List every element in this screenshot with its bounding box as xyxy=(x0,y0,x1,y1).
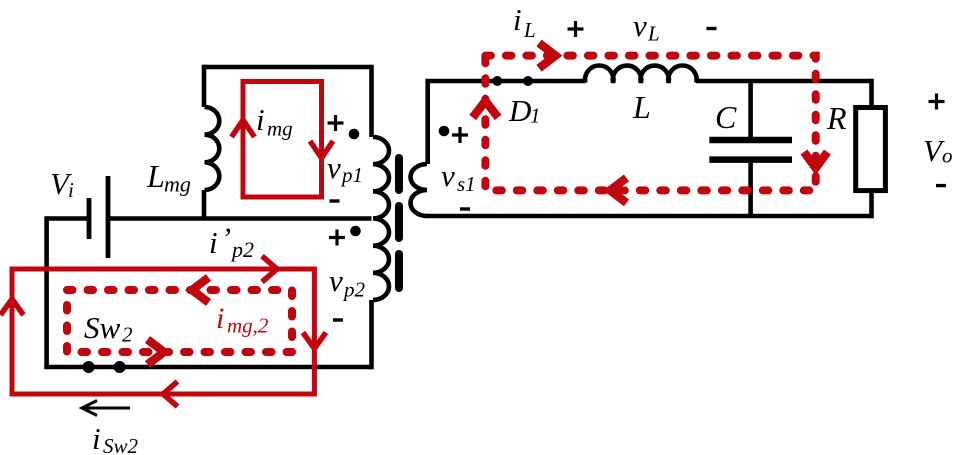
svg-text:o: o xyxy=(942,144,953,168)
current loop img (solid red rectangle) xyxy=(243,82,322,198)
svg-text:mg: mg xyxy=(164,172,191,197)
svg-text:v: v xyxy=(327,150,341,185)
svg-text:mg,2: mg,2 xyxy=(227,314,269,338)
wire resistor bottom lead xyxy=(869,191,874,219)
arrow up on img loop left side xyxy=(232,120,255,137)
wire vs1 top lead xyxy=(425,81,430,164)
arrow right on outer loop top side xyxy=(262,256,277,282)
label ip2 prime xyxy=(209,222,254,262)
arrow right on img2 loop bottom side xyxy=(148,340,165,365)
label Vo xyxy=(923,133,953,168)
arrow down on img loop right side xyxy=(310,141,333,158)
polarity dot vp1 xyxy=(349,129,360,140)
minus sign vs1 xyxy=(460,207,470,210)
transformer core xyxy=(395,158,403,288)
label vL xyxy=(633,8,660,46)
svg-text:p2: p2 xyxy=(230,237,254,262)
wire capacitor top lead xyxy=(748,81,753,137)
label vp2 xyxy=(329,263,366,302)
svg-text:D: D xyxy=(508,93,531,128)
label vs1 xyxy=(441,158,476,196)
svg-text:p1: p1 xyxy=(340,163,363,187)
inductor L xyxy=(585,66,697,83)
wire secondary bottom horizontal xyxy=(425,214,871,219)
svg-text:v: v xyxy=(633,8,647,43)
svg-text:L: L xyxy=(523,18,536,42)
svg-text:v: v xyxy=(329,263,343,298)
wire vp1 top lead xyxy=(369,65,374,137)
inductor Lmg xyxy=(205,107,220,190)
wire capacitor bottom lead xyxy=(748,163,753,216)
label img2 (red) xyxy=(216,302,269,338)
current loop iSw2 (outer solid red rectangle) xyxy=(12,269,314,394)
svg-text:2: 2 xyxy=(122,323,133,347)
wire main horizontal from Vi to transformer xyxy=(47,216,372,221)
label C xyxy=(715,99,737,135)
plus sign vp2 xyxy=(329,230,345,246)
transformer primary winding vp2 xyxy=(373,219,389,301)
svg-text:p2: p2 xyxy=(342,278,366,302)
arrow iSw2 (black) xyxy=(82,401,130,416)
svg-text:i: i xyxy=(256,102,265,137)
wire bottom switch branch xyxy=(44,365,371,370)
label D1 xyxy=(508,93,541,128)
wire L to top-right corner xyxy=(696,79,871,84)
polarity dot vs1 xyxy=(439,126,450,137)
arrow left on iL loop bottom side xyxy=(610,178,627,203)
transformer primary winding vp1 xyxy=(373,137,389,219)
svg-text:s1: s1 xyxy=(457,172,476,196)
label img xyxy=(256,102,293,141)
minus sign vp2 xyxy=(333,318,343,321)
voltage source Vi xyxy=(89,176,108,258)
wire vp2 bottom lead xyxy=(369,300,374,369)
arrow right on iL loop top side xyxy=(539,43,556,68)
svg-text:mg: mg xyxy=(267,117,293,141)
label Lmg xyxy=(146,158,191,197)
switch Sw2 terminal dots xyxy=(83,361,126,373)
minus sign Vo xyxy=(936,184,946,187)
svg-text:Sw2: Sw2 xyxy=(103,434,139,455)
minus sign vp1 xyxy=(330,199,340,202)
svg-text:i: i xyxy=(513,2,522,37)
arrow left on outer loop bottom side xyxy=(163,382,178,407)
wire Lmg top lead xyxy=(202,65,207,107)
label Vi xyxy=(50,166,74,202)
arrow up on iL loop left side xyxy=(473,101,498,118)
arrow left on img2 loop top side xyxy=(192,278,209,303)
label iSw2 xyxy=(92,421,139,455)
minus sign vL xyxy=(707,27,717,30)
wire secondary top horizontal xyxy=(425,79,585,84)
svg-text:’: ’ xyxy=(221,222,231,255)
label R xyxy=(826,100,847,136)
label vp1 xyxy=(327,150,363,187)
svg-text:R: R xyxy=(826,100,847,136)
svg-text:L: L xyxy=(647,22,660,46)
plus sign vL xyxy=(568,21,584,37)
wire Lmg bottom lead xyxy=(202,190,207,219)
svg-text:Sw: Sw xyxy=(84,310,121,345)
svg-text:L: L xyxy=(632,89,651,125)
arrow down on outer loop right side xyxy=(303,333,326,349)
polarity dot vp2 xyxy=(350,226,361,237)
current loop img2 (dashed red rectangle) xyxy=(67,290,292,352)
plus sign Vo xyxy=(929,94,945,110)
arrow down on iL loop right side xyxy=(804,152,827,168)
svg-text:i: i xyxy=(209,225,218,260)
plus sign vs1 xyxy=(452,127,468,143)
svg-text:i: i xyxy=(216,302,224,335)
svg-text:i: i xyxy=(92,421,101,455)
wire left vertical xyxy=(44,216,49,367)
diode D1 terminal dots xyxy=(492,76,533,86)
svg-text:i: i xyxy=(68,178,74,202)
arrow up on outer loop left side xyxy=(1,299,24,315)
plus sign vp1 xyxy=(328,115,344,131)
wire resistor top lead xyxy=(869,79,874,108)
svg-text:1: 1 xyxy=(530,104,541,128)
transformer secondary winding vs1 xyxy=(411,164,428,216)
capacitor C xyxy=(709,140,792,160)
svg-text:C: C xyxy=(715,99,737,135)
current loop iL (dashed red rectangle secondary) xyxy=(485,56,815,191)
label iL xyxy=(513,2,536,42)
label L xyxy=(632,89,651,125)
label Sw2 xyxy=(84,310,133,347)
wire top of magnetizing branch xyxy=(204,65,372,70)
svg-text:v: v xyxy=(441,158,455,193)
svg-text:L: L xyxy=(146,158,165,194)
resistor R xyxy=(856,108,886,191)
